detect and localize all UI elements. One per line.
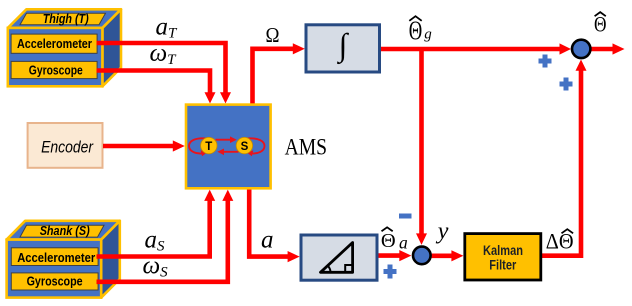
label theta_a with hat [381, 227, 408, 252]
svg-text:Gyroscope: Gyroscope [29, 63, 83, 77]
wire arctan box output theta_a to lower summing node [377, 253, 401, 258]
arctan block [301, 235, 377, 280]
svg-text:ΔΘ: ΔΘ [546, 229, 574, 254]
wire branch from theta_g line down to lower summing node [419, 49, 424, 235]
svg-text:y: y [436, 219, 449, 245]
arrow T to S [216, 139, 232, 141]
AMS block [186, 105, 271, 189]
arrow S to T [223, 151, 239, 153]
shank sensor unit 3D box [7, 221, 120, 298]
left loop arc [189, 138, 206, 153]
svg-text:Accelerometer: Accelerometer [17, 37, 92, 51]
top face [8, 9, 121, 28]
wire top summing node output theta [591, 47, 613, 52]
wire lower summing node output y to kalman filter [432, 254, 452, 259]
kalman filter block [465, 234, 541, 280]
wire kalman output feedback up to top summing node [541, 70, 581, 256]
svg-text:a: a [399, 233, 408, 253]
svg-text:S: S [241, 141, 249, 153]
svg-text:Accelerometer: Accelerometer [17, 251, 95, 265]
svg-text:AMS: AMS [285, 134, 328, 159]
shank accelerometer bar [11, 248, 98, 266]
integrator block [306, 25, 380, 72]
svg-text:Kalman: Kalman [483, 243, 523, 258]
wire a_S from shank accelerometer to AMS bottom [97, 198, 210, 257]
svg-text:Gyroscope: Gyroscope [27, 275, 83, 289]
wire omega_T from thigh gyroscope to AMS top [97, 71, 211, 96]
T-S exchange icon [189, 136, 265, 156]
wire integrator output to top summing node [379, 47, 560, 52]
svg-text:g: g [424, 27, 432, 43]
wire omega_S from shank gyroscope to AMS bottom [97, 198, 228, 282]
plus sign left input of lower node [384, 265, 397, 279]
wire encoder to AMS [103, 144, 173, 149]
T node [201, 137, 217, 153]
wire a from AMS bottom to arctan box [249, 187, 288, 257]
svg-text:Shank (S): Shank (S) [40, 223, 90, 238]
angle triangle icon [321, 243, 353, 273]
front face [8, 28, 103, 86]
top summing node [572, 40, 590, 58]
top face [7, 221, 120, 240]
svg-text:Thigh (T): Thigh (T) [43, 11, 89, 26]
thigh gyroscope bar [11, 61, 97, 78]
wire Omega from AMS top to integrator [253, 49, 294, 106]
shank label plate [20, 225, 104, 237]
svg-text:a: a [261, 227, 274, 254]
svg-text:Encoder: Encoder [41, 139, 94, 157]
thigh label plate [20, 13, 106, 25]
thigh sensor unit 3D box [8, 9, 121, 86]
right loop arc [247, 138, 265, 153]
svg-text:Ω: Ω [266, 23, 280, 47]
plus sign bottom input of top node [560, 78, 573, 91]
S node [236, 137, 252, 153]
svg-text:Θ: Θ [381, 230, 396, 252]
wire a_T from thigh accelerometer to AMS top [97, 43, 226, 95]
thigh accelerometer bar [11, 34, 97, 53]
plus sign left input of top node [539, 55, 552, 68]
label theta_g with hat [409, 16, 433, 45]
encoder block [28, 123, 103, 168]
side face [101, 221, 120, 298]
svg-text:Filter: Filter [489, 257, 517, 272]
side face [102, 9, 121, 86]
front face [7, 240, 102, 298]
svg-text:T: T [205, 141, 212, 153]
shank gyroscope bar [11, 273, 98, 290]
lower summing node [413, 247, 431, 265]
label delta theta hat [546, 229, 574, 254]
minus sign top input of lower node [399, 214, 412, 219]
label theta hat output [594, 11, 607, 36]
